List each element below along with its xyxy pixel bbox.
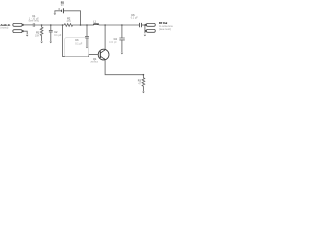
svg-text:0.1 µF: 0.1 µF [54, 34, 62, 37]
wire C1 to node [35, 24, 64, 26]
transistor Q1 [98, 49, 109, 60]
ground arrow C3 [86, 47, 88, 49]
wire emitter [105, 60, 143, 75]
capacitor C2 [49, 25, 53, 41]
capacitor C4 [119, 25, 124, 52]
wire collector [104, 25, 106, 49]
svg-text:(see text): (see text) [159, 27, 171, 31]
wire node to L1 [81, 24, 94, 26]
wire output ground drop [144, 25, 146, 33]
ground arrow input [26, 35, 29, 37]
wire L1 to C6 [99, 24, 139, 26]
wire C6 to output [142, 24, 147, 26]
highlight box [65, 38, 89, 57]
ground arrow R3 [142, 92, 145, 94]
svg-text:(mono): (mono) [0, 27, 8, 30]
resistor R2 [64, 24, 81, 27]
resistor R3 [142, 75, 145, 92]
capacitor C6 [139, 23, 141, 27]
svg-text:100 pF: 100 pF [109, 41, 117, 44]
svg-text:2N3904: 2N3904 [90, 62, 98, 64]
svg-text:(see text): (see text) [29, 20, 40, 23]
svg-text:47K: 47K [66, 20, 71, 23]
capacitor C3 [85, 25, 89, 46]
resistor R1 [40, 25, 43, 41]
wire node down to base [63, 25, 98, 56]
ground arrow R1 [40, 42, 43, 44]
svg-text:9V: 9V [61, 4, 64, 7]
svg-text:10K: 10K [35, 35, 40, 38]
plus sign battery [58, 8, 60, 10]
ground arrow C2 [50, 42, 53, 44]
inductor L1 [94, 24, 99, 25]
connector J2 audio in sleeve [13, 30, 22, 33]
ground arrow battery [54, 13, 57, 15]
ground arrow output [144, 35, 147, 37]
svg-text:0.1 µF: 0.1 µF [75, 43, 83, 46]
battery B1 [64, 11, 81, 25]
connector J1 audio in tip [13, 23, 22, 26]
wire jack1 to C1 [23, 24, 33, 26]
connector J3 rf out tip [146, 23, 155, 26]
wire jack2 to ground [23, 31, 27, 34]
capacitor C1 [33, 23, 35, 27]
ground arrow C4 [121, 53, 124, 55]
connector J4 rf out sleeve [146, 29, 155, 32]
junction dots [41, 24, 146, 75]
svg-text:0.1 µF: 0.1 µF [131, 17, 139, 20]
